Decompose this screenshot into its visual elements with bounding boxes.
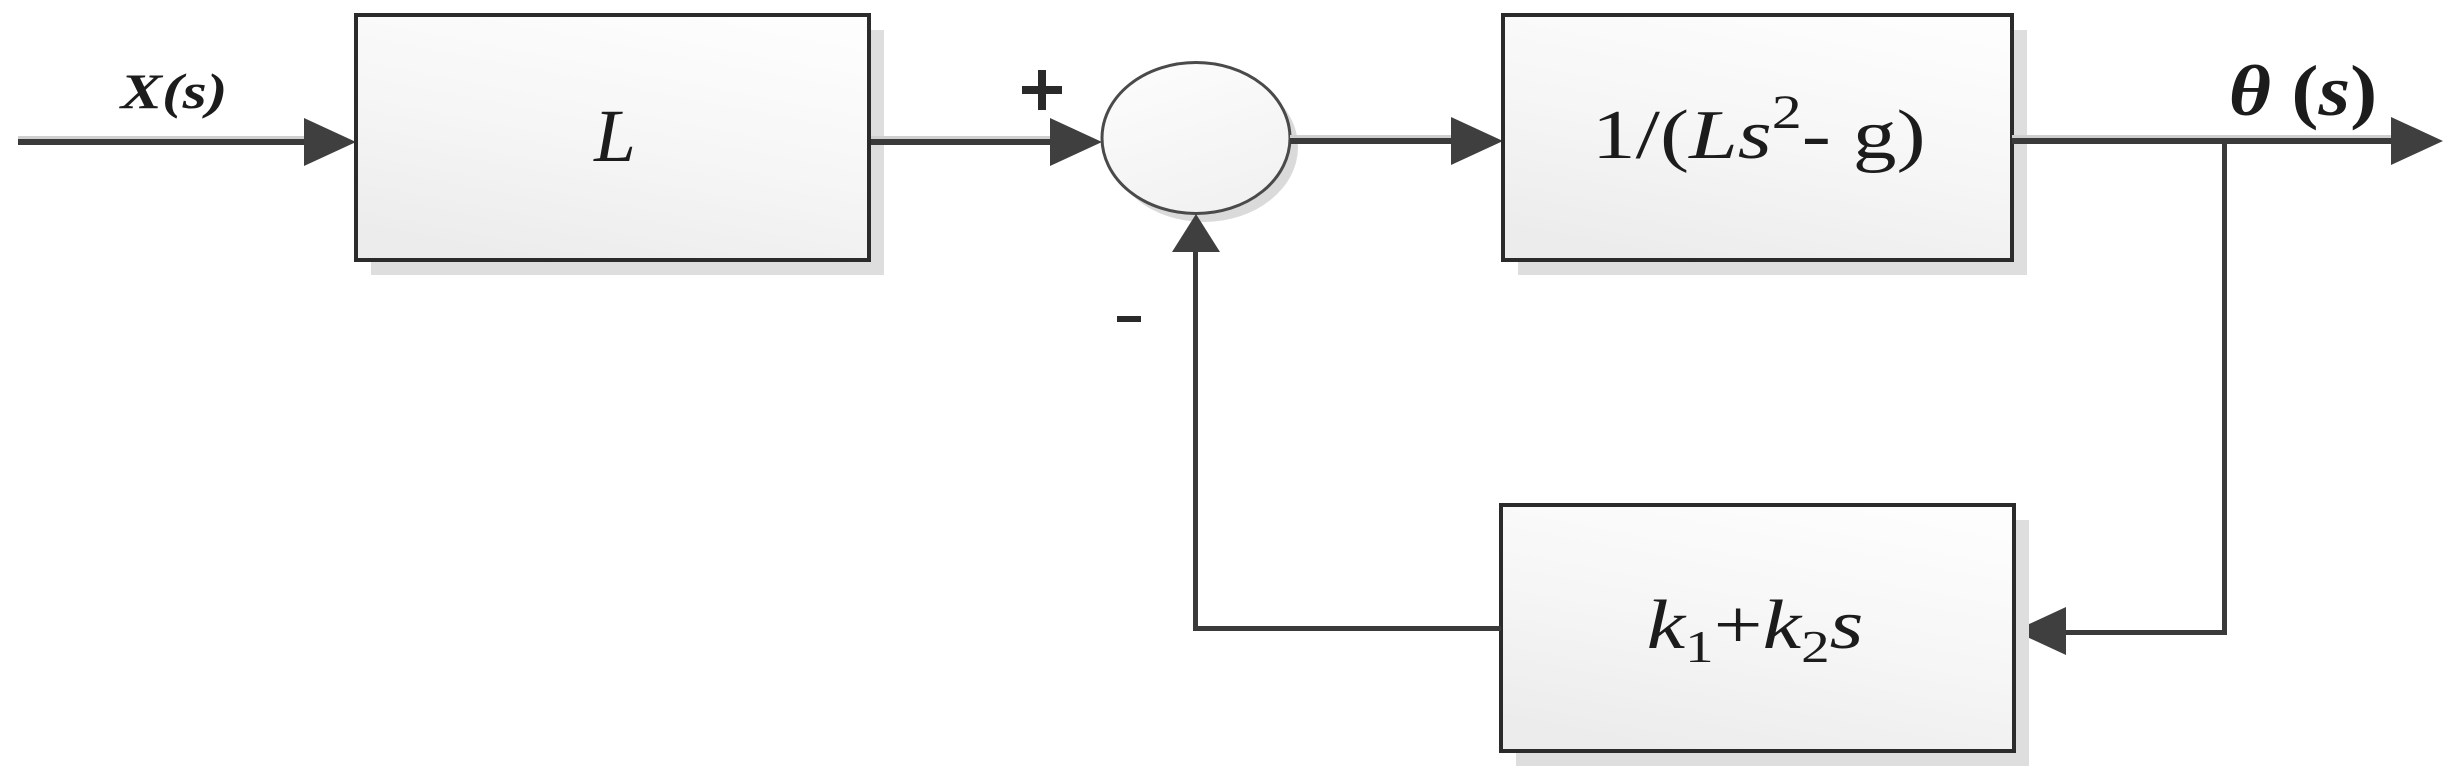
- minus sign: [1117, 316, 1141, 322]
- wire summing junction to block 1/(Ls2-g): [1290, 135, 1457, 144]
- summing junction shadow: [1110, 72, 1298, 222]
- plus sign: [1022, 70, 1062, 110]
- arrowhead into block 1/(Ls2-g): [1451, 117, 1503, 165]
- svg-text:L: L: [593, 95, 636, 178]
- block 1/(Ls2-g): [1503, 15, 2012, 260]
- label k1+k2s: [1647, 587, 1864, 673]
- label 1/(Ls2-g): [1592, 86, 1926, 174]
- svg-text:θ (s): θ (s): [2229, 51, 2377, 131]
- block L: [356, 15, 869, 260]
- arrowhead into block k1+k2s: [2014, 607, 2066, 655]
- arrowhead into block L: [304, 118, 356, 166]
- wire feedback vertical left: [1193, 248, 1198, 631]
- arrowhead output: [2391, 117, 2443, 165]
- wire L to summing junction: [871, 136, 1056, 145]
- svg-text:X(s): X(s): [118, 64, 227, 119]
- wire feedback vertical right: [2222, 141, 2227, 632]
- wire input x(s): [18, 136, 310, 145]
- block L shadow: [371, 30, 884, 275]
- block k1+k2s shadow: [1516, 520, 2029, 766]
- block k1+k2s: [1501, 505, 2014, 751]
- svg-text:1/(Ls2- g): 1/(Ls2- g): [1592, 86, 1926, 174]
- wire feedback horizontal left: [1193, 626, 1501, 631]
- label theta(s): [2229, 51, 2377, 131]
- wire output theta(s): [2012, 135, 2392, 144]
- label X(s): [118, 64, 227, 119]
- arrowhead into summing junction bottom: [1172, 214, 1220, 252]
- wire feedback horizontal right: [2062, 630, 2227, 635]
- svg-text:k1+k2s: k1+k2s: [1647, 587, 1864, 673]
- summing junction U1: [1102, 63, 1290, 214]
- block 1/(Ls2-g) shadow: [1518, 30, 2027, 275]
- arrowhead into summing junction: [1050, 118, 1102, 166]
